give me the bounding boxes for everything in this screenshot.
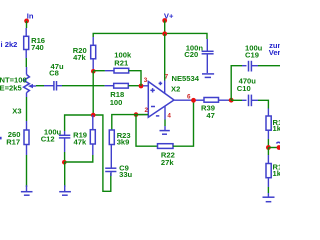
svg-text:C12: C12 bbox=[41, 135, 55, 144]
label zum Ver... (cut) bbox=[269, 41, 285, 57]
svg-text:R17: R17 bbox=[6, 138, 20, 147]
junction R39/C19/C10 bbox=[229, 98, 234, 103]
svg-text:7: 7 bbox=[165, 74, 169, 81]
wire R18 to op-amp pin3 bbox=[129, 85, 142, 87]
svg-text:C19: C19 bbox=[245, 50, 259, 59]
pin lead R16 bottom / wire to X3 bbox=[25, 50, 27, 59]
svg-text:100: 100 bbox=[110, 98, 123, 107]
svg-text:NE5534: NE5534 bbox=[172, 74, 200, 83]
pin lead op-amp pin3 bbox=[141, 85, 148, 87]
wire op-amp output bbox=[174, 99, 191, 101]
wire divider tap to edge bbox=[268, 147, 279, 149]
resistor R21 bbox=[114, 51, 132, 73]
wire junction up to C19 bbox=[231, 66, 242, 101]
resistor R14 (cut) bbox=[266, 116, 287, 133]
resistor R19 bbox=[73, 115, 95, 155]
label fragment at left edge bbox=[0, 137, 2, 140]
resistor R39 bbox=[201, 98, 219, 120]
wire R22 left bbox=[136, 115, 158, 147]
ground C20 bbox=[202, 74, 214, 78]
svg-text:3: 3 bbox=[144, 77, 148, 84]
left rail wire (C12 / bias) bbox=[65, 115, 111, 191]
junction pin2/R22 bbox=[134, 112, 139, 117]
svg-text:X2: X2 bbox=[171, 84, 180, 93]
junction V+ rail bbox=[162, 31, 167, 36]
wire R39 to junction bbox=[219, 99, 229, 101]
svg-text:2: 2 bbox=[145, 107, 149, 114]
resistor R23 bbox=[109, 130, 130, 147]
capacitor C8 bbox=[44, 62, 64, 91]
junction bias node bbox=[91, 69, 96, 74]
svg-text:47k: 47k bbox=[73, 53, 86, 62]
wire junction to ground bbox=[64, 162, 66, 187]
capacitor C12 bbox=[41, 127, 71, 152]
ground GND4 bbox=[263, 193, 275, 202]
wire In to R16 bbox=[26, 21, 28, 28]
junction pin3/R21 bbox=[139, 84, 144, 89]
junction C12/R19/gnd bbox=[62, 160, 67, 165]
wire X3 wiper to C8 bbox=[36, 85, 44, 87]
node edge dot bbox=[277, 145, 282, 150]
junction output/feedback bbox=[191, 98, 196, 103]
ground GND2 bbox=[21, 185, 33, 195]
resistor R15 (cut) bbox=[266, 163, 287, 179]
wire R14 to junction bbox=[267, 130, 269, 139]
resistor R22 bbox=[158, 144, 175, 167]
capacitor C19 bbox=[245, 43, 263, 71]
junction divider bbox=[266, 145, 271, 150]
capacitor C20 bbox=[184, 39, 213, 73]
wire V+ to op-amp pin7 bbox=[164, 34, 166, 81]
wire X3 to R17 bbox=[26, 97, 28, 121]
wire R19 bottom to junction bbox=[64, 155, 92, 162]
svg-text:27k: 27k bbox=[161, 158, 174, 167]
resistor R18 bbox=[110, 83, 129, 107]
svg-text:33u: 33u bbox=[119, 170, 132, 179]
svg-text:Ver: Ver bbox=[269, 48, 280, 57]
svg-text:i 2k2: i 2k2 bbox=[1, 40, 18, 49]
resistor R20 bbox=[73, 37, 96, 71]
wire bias node to R21 bbox=[93, 70, 105, 72]
svg-text:C8: C8 bbox=[49, 69, 59, 78]
wire R21 to pin3 junction bbox=[129, 71, 141, 86]
wire R17 to ground bbox=[26, 155, 28, 187]
svg-text:47k: 47k bbox=[74, 138, 87, 147]
op-amp X2 NE5534 bbox=[148, 74, 199, 117]
wire R16 to X3 bbox=[25, 58, 27, 67]
wire C10 to divider bbox=[258, 100, 268, 108]
wire R15 to ground bbox=[267, 178, 269, 187]
V+ supply rail bbox=[93, 33, 207, 39]
wire C8 to R18 bbox=[62, 85, 105, 87]
ground GND1 bbox=[59, 185, 71, 195]
svg-text:1k: 1k bbox=[273, 169, 281, 178]
capacitor C9 bbox=[105, 145, 132, 180]
svg-text:R21: R21 bbox=[114, 59, 129, 68]
partial blue glyph at edge bbox=[277, 142, 281, 143]
svg-text:E=2k5: E=2k5 bbox=[0, 84, 22, 93]
wire R22 right / feedback to output bbox=[173, 100, 194, 146]
wire junction to R15 bbox=[267, 148, 269, 156]
pin lead R16 top bbox=[25, 28, 27, 36]
svg-text:4: 4 bbox=[167, 112, 171, 119]
junction bias/left rail bbox=[91, 113, 96, 118]
ground op-amp pin4 bbox=[160, 106, 170, 134]
wire bias vertical (R20 to left rail) bbox=[92, 71, 94, 115]
svg-text:C20: C20 bbox=[184, 50, 198, 59]
svg-text:C10: C10 bbox=[237, 84, 251, 93]
resistor R17 bbox=[6, 121, 29, 155]
svg-text:1k1: 1k1 bbox=[273, 124, 281, 133]
trimpot X3 bbox=[12, 67, 36, 116]
wire C12 to ground junction bbox=[64, 152, 66, 162]
wire V+ down bbox=[164, 21, 166, 34]
svg-text:X3: X3 bbox=[12, 107, 21, 116]
node V+ bbox=[162, 11, 174, 23]
capacitor C10 bbox=[231, 76, 258, 106]
wire pin2 rail to R23 bbox=[112, 115, 148, 130]
wire op-amp pin2 bbox=[136, 114, 144, 116]
resistor R16 bbox=[24, 36, 45, 52]
svg-text:740: 740 bbox=[31, 43, 44, 52]
wire C19 to edge (zum Verstaerker) bbox=[258, 65, 280, 67]
svg-text:47: 47 bbox=[206, 111, 214, 120]
node In bbox=[24, 12, 34, 24]
svg-text:3k9: 3k9 bbox=[117, 138, 130, 147]
